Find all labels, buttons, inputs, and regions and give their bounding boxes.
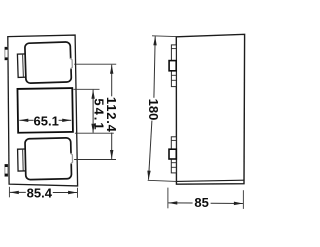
ext line left (85.4) bbox=[8, 187, 10, 198]
ext line top (112.4) bbox=[74, 63, 116, 65]
dim line 85 left segment bbox=[168, 202, 192, 204]
left clip tab top (front view) bbox=[5, 47, 8, 60]
upper cover body bbox=[25, 42, 72, 83]
svg-text:65.1: 65.1 bbox=[34, 113, 59, 128]
left tab (upper) bbox=[17, 54, 26, 78]
dim line 112.4 upper segment bbox=[111, 65, 113, 97]
side clip top: dark band bbox=[169, 61, 176, 71]
upper valve cover (rounded shape) bbox=[17, 42, 73, 84]
front view outer box bbox=[8, 35, 78, 186]
svg-text:180: 180 bbox=[146, 99, 161, 121]
dim line 180 upper segment bbox=[154, 36, 155, 98]
dim line 54.1 vertical bbox=[92, 90, 94, 111]
right gray bump (lower) bbox=[70, 154, 73, 164]
ext line bottom (54.1) bbox=[75, 132, 114, 134]
side clip top: cross lines bbox=[171, 48, 176, 50]
dim line 85.4 left segment bbox=[10, 191, 26, 193]
lower valve cover (rounded shape) bbox=[17, 138, 73, 180]
side clip bottom: dark band bbox=[169, 149, 176, 159]
left tab inner fold line (upper) bbox=[22, 55, 25, 77]
ext line left (85) bbox=[167, 188, 169, 209]
middle square opening bbox=[17, 88, 72, 133]
svg-text:85.4: 85.4 bbox=[27, 186, 53, 201]
svg-text:85: 85 bbox=[194, 195, 208, 210]
ext line top (54.1) bbox=[73, 88, 99, 90]
dim line 65.1 left segment bbox=[19, 119, 33, 121]
ext line bottom (180) bbox=[148, 180, 177, 181]
dim line 85 right segment bbox=[211, 202, 243, 204]
ext line bottom (112.4) bbox=[74, 159, 116, 161]
dim line 180 lower segment bbox=[149, 121, 152, 180]
side view outer box bbox=[176, 34, 244, 184]
side view bottom seam line bbox=[176, 180, 244, 181]
dim line 65.1 right segment bbox=[59, 119, 72, 121]
ext line right (85.4) bbox=[77, 188, 79, 198]
lower cover body bbox=[25, 138, 72, 180]
svg-text:112.4: 112.4 bbox=[104, 97, 119, 133]
left tab (lower) bbox=[18, 149, 27, 171]
side clip top: body bbox=[171, 45, 176, 87]
dim line 85.4 right segment bbox=[53, 192, 77, 194]
dim line 112.4 lower segment bbox=[111, 133, 113, 159]
ext line right (85) bbox=[242, 190, 244, 209]
right gray bump (upper) bbox=[69, 59, 72, 69]
side clip bottom: body bbox=[171, 137, 176, 173]
side clip bottom: cross lines bbox=[171, 139, 176, 141]
left clip tab bottom (front view) bbox=[5, 164, 8, 176]
ext line top (180) bbox=[152, 35, 176, 38]
left tab inner fold line (lower) bbox=[22, 150, 24, 171]
